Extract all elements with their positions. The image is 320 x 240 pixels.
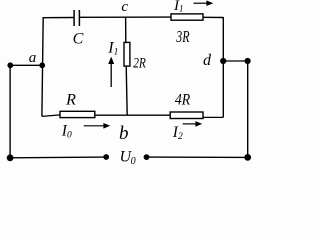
svg-text:3R: 3R	[176, 27, 190, 46]
resistor R2 3R body	[171, 14, 203, 20]
svg-text:a: a	[29, 50, 37, 66]
right terminal dot	[245, 58, 251, 64]
wire left vertical branch	[42, 17, 43, 116]
wire top rail left segment	[43, 17, 73, 19]
svg-text:b: b	[119, 123, 129, 144]
resistor R1 R body	[60, 111, 95, 117]
wire middle rail center segment	[95, 114, 170, 116]
wire bottom rail right segment	[147, 156, 248, 158]
wire right terminal down	[247, 61, 249, 158]
svg-text:I2: I2	[172, 124, 183, 142]
current I0 arrow	[84, 123, 111, 129]
svg-text:I1: I1	[173, 0, 184, 14]
bottom right terminal dot	[244, 154, 251, 161]
wire middle vertical upper segment	[125, 17, 127, 43]
wire middle rail left stub	[42, 115, 60, 117]
left terminal dot	[7, 62, 13, 68]
current I2 arrow	[183, 121, 203, 127]
wire top rail right segment	[203, 16, 223, 18]
wire left terminal down	[9, 65, 11, 158]
svg-text:R: R	[65, 92, 76, 109]
source U0 left dot	[103, 154, 109, 160]
wire bottom rail left segment	[10, 156, 106, 159]
svg-text:C: C	[73, 31, 84, 48]
svg-text:2R: 2R	[133, 55, 146, 71]
svg-text:c: c	[121, 0, 128, 15]
current I1 arrow middle pointing up	[108, 57, 114, 87]
wire middle rail right stub	[203, 116, 223, 118]
svg-text:U0: U0	[120, 148, 136, 166]
node a junction dot	[39, 62, 45, 68]
wire node a to left terminal	[10, 64, 42, 66]
wire top rail middle segment	[80, 16, 171, 18]
resistor R3 2R body	[124, 42, 130, 66]
bottom left terminal dot	[7, 154, 14, 161]
resistor R4 4R body	[170, 112, 203, 119]
source U0 right dot	[144, 154, 150, 160]
wire node d to right terminal	[223, 60, 248, 62]
node d junction dot	[220, 58, 226, 64]
svg-text:4R: 4R	[175, 91, 191, 108]
current I1 arrow top	[194, 0, 214, 6]
wire right vertical branch	[222, 17, 224, 117]
capacitor C1 plates	[74, 10, 79, 26]
svg-text:I1: I1	[107, 39, 118, 57]
svg-text:I0: I0	[61, 122, 72, 140]
svg-text:d: d	[203, 52, 212, 69]
wire middle vertical lower segment	[126, 66, 127, 115]
